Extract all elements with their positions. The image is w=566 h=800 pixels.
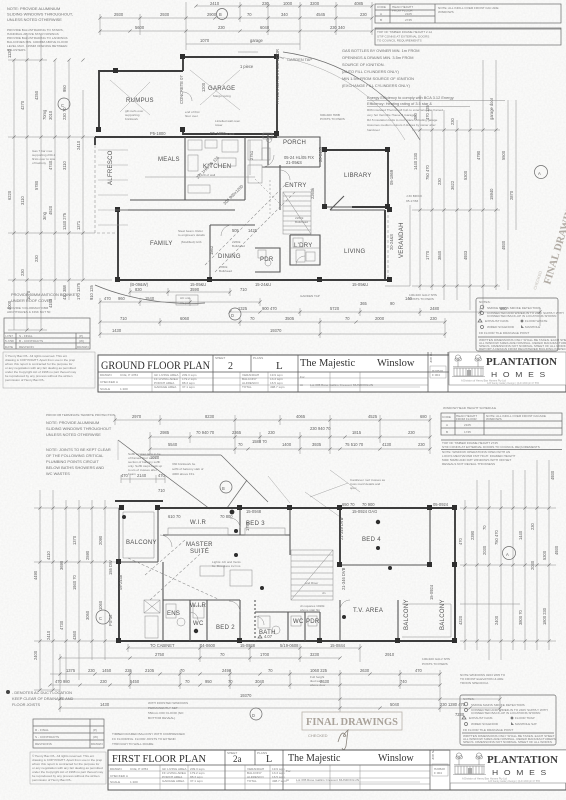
rumpus walls bbox=[99, 71, 183, 130]
svg-text:470: 470 bbox=[415, 668, 423, 673]
svg-text:4525: 4525 bbox=[368, 414, 378, 419]
svg-text:PS-16: PS-16 bbox=[108, 614, 113, 626]
svg-text:B: B bbox=[380, 18, 382, 22]
svg-text:710: 710 bbox=[120, 316, 128, 321]
svg-text:90: 90 bbox=[390, 301, 395, 306]
svg-text:3230: 3230 bbox=[310, 652, 320, 657]
garage walls bbox=[183, 57, 277, 134]
svg-text:PLUMBING POINTS CIRCUIT: PLUMBING POINTS CIRCUIT bbox=[46, 459, 99, 464]
svg-text:GARAGE AREA: GARAGE AREA bbox=[162, 779, 185, 783]
svg-text:230: 230 bbox=[268, 430, 276, 435]
svg-text:1060: 1060 bbox=[98, 600, 103, 610]
svg-text:4360: 4360 bbox=[72, 630, 77, 640]
FF MIDNOTES bbox=[172, 462, 386, 497]
CIRCLE B FF bbox=[220, 481, 232, 493]
svg-text:FD FLOOR TILE DRAINAGE POINT: FD FLOOR TILE DRAINAGE POINT bbox=[463, 728, 513, 732]
svg-text:4730: 4730 bbox=[59, 620, 64, 630]
svg-text:MEALS: MEALS bbox=[158, 157, 180, 163]
bottom wall bbox=[119, 640, 455, 642]
svg-text:FD FLOOR TILE DRAINAGE POINT: FD FLOOR TILE DRAINAGE POINT bbox=[479, 331, 529, 335]
svg-text:BALCONY: BALCONY bbox=[440, 599, 446, 630]
svg-text:floor over: floor over bbox=[185, 114, 198, 118]
BOTTOM DIMS GF bbox=[100, 287, 540, 338]
svg-text:Margo Living: Margo Living bbox=[213, 94, 231, 98]
svg-text:BALCONY: BALCONY bbox=[126, 540, 157, 546]
pdr box bbox=[255, 248, 280, 272]
dim ticks ff top bbox=[113, 418, 116, 421]
svg-text:4490: 4490 bbox=[33, 570, 38, 580]
svg-text:3690: 3690 bbox=[59, 560, 64, 570]
svg-text:CCE, P 4784: CCE, P 4784 bbox=[120, 373, 138, 377]
svg-text:15-0924 OAG: 15-0924 OAG bbox=[352, 509, 377, 514]
svg-text:70: 70 bbox=[482, 525, 487, 530]
svg-text:2000: 2000 bbox=[375, 316, 385, 321]
svg-text:04-0600: 04-0600 bbox=[200, 643, 216, 648]
svg-text:2140: 2140 bbox=[137, 473, 147, 478]
svg-text:365: 365 bbox=[360, 301, 368, 306]
svg-text:2970: 2970 bbox=[132, 414, 142, 419]
svg-text:FINAL DRAWINGS: FINAL DRAWINGS bbox=[306, 717, 398, 728]
svg-text:2030: 2030 bbox=[530, 560, 535, 570]
svg-text:5040: 5040 bbox=[390, 702, 400, 707]
svg-text:3040: 3040 bbox=[255, 679, 265, 684]
LEFT DIMS GF bbox=[7, 35, 112, 330]
svg-text:1700: 1700 bbox=[260, 652, 270, 657]
svg-text:MANHOLE SAT: MANHOLE SAT bbox=[515, 722, 537, 726]
svg-text:DINING: DINING bbox=[218, 254, 241, 260]
svg-text:70: 70 bbox=[185, 679, 190, 684]
svg-text:AC unit: AC unit bbox=[180, 296, 190, 300]
NOTES BOX FF bbox=[460, 695, 556, 745]
svg-text:1425: 1425 bbox=[248, 228, 258, 233]
STAMP bbox=[302, 712, 402, 750]
svg-text:4545: 4545 bbox=[316, 12, 326, 17]
svg-text:4110: 4110 bbox=[46, 550, 51, 560]
svg-text:4933: 4933 bbox=[463, 250, 468, 260]
svg-text:1070: 1070 bbox=[150, 455, 160, 460]
svg-text:SHEET: SHEET bbox=[215, 356, 225, 360]
svg-text:15-09&U: 15-09&U bbox=[190, 282, 206, 287]
svg-text:15-0844: 15-0844 bbox=[330, 643, 346, 648]
svg-text:(W): (W) bbox=[93, 735, 98, 739]
CIRCLE D GF bbox=[229, 308, 241, 320]
FF TOPDIMS bbox=[115, 414, 430, 460]
svg-text:70: 70 bbox=[220, 652, 225, 657]
balcony right strip bbox=[397, 600, 399, 641]
svg-text:2410: 2410 bbox=[46, 630, 51, 640]
svg-text:1370: 1370 bbox=[72, 535, 77, 545]
svg-text:brickwork: brickwork bbox=[125, 117, 139, 121]
svg-text:05-0924: 05-0924 bbox=[433, 502, 449, 507]
svg-text:1371: 1371 bbox=[76, 220, 81, 230]
svg-text:2400: 2400 bbox=[494, 615, 499, 625]
FF RIGHT DIMS bbox=[458, 460, 559, 660]
svg-text:NOTES:: NOTES: bbox=[479, 300, 491, 304]
svg-text:4930: 4930 bbox=[554, 545, 559, 555]
svg-text:5/19-0608: 5/19-0608 bbox=[280, 643, 299, 648]
garage diagonal braces bbox=[190, 70, 240, 110]
svg-text:1800 230: 1800 230 bbox=[542, 607, 547, 625]
meals kitchen bottom bbox=[130, 199, 245, 201]
svg-text:very hot Vermilite House & Gar: very hot Vermilite House & Garage) bbox=[367, 113, 416, 117]
svg-text:3622: 3622 bbox=[450, 180, 455, 190]
ens / wir lower / wc bbox=[163, 599, 240, 601]
svg-text:POSTS TO PERS: POSTS TO PERS bbox=[320, 117, 345, 121]
svg-text:6040: 6040 bbox=[260, 25, 270, 30]
svg-text:230: 230 bbox=[430, 316, 438, 321]
verandah strip bbox=[385, 205, 410, 286]
svg-text:1440 230: 1440 230 bbox=[413, 152, 418, 170]
GF WALL TEXT FRAGMENTS bbox=[130, 49, 394, 287]
svg-text:95-17/83: 95-17/83 bbox=[406, 199, 418, 203]
ladder ticks gf left bbox=[12, 58, 15, 61]
KITCHEN FIXTURES bbox=[188, 140, 315, 266]
svg-text:2090: 2090 bbox=[98, 535, 103, 545]
svg-text:Winslow: Winslow bbox=[377, 358, 415, 369]
svg-text:FLOOR JOISTS: FLOOR JOISTS bbox=[12, 702, 41, 707]
svg-text:610 70: 610 70 bbox=[168, 514, 181, 519]
svg-text:NOTE: JOINTS TO BE KEPT CLEAR: NOTE: JOINTS TO BE KEPT CLEAR bbox=[46, 447, 111, 452]
svg-text:2a: 2a bbox=[233, 754, 242, 764]
svg-text:W.I.R: W.I.R bbox=[190, 520, 207, 526]
svg-text:19370: 19370 bbox=[240, 693, 252, 698]
svg-text:05-2448: 05-2448 bbox=[118, 574, 123, 590]
svg-text:WIRED SOLENOID: WIRED SOLENOID bbox=[471, 722, 499, 726]
svg-text:At: At bbox=[286, 778, 289, 782]
LOGO2 bbox=[450, 750, 566, 783]
svg-text:garage: garage bbox=[250, 38, 263, 43]
svg-text:2745: 2745 bbox=[405, 18, 412, 22]
svg-text:EXHAUST FANS: EXHAUST FANS bbox=[469, 716, 493, 720]
dim ticks ff bottom bbox=[126, 646, 129, 649]
CIRCLE A FF bbox=[503, 547, 516, 560]
svg-text:710: 710 bbox=[240, 287, 248, 292]
FF WALL TEXT FRAGMENTS bbox=[118, 517, 434, 648]
diagonal raking lines hall bbox=[205, 185, 285, 265]
svg-text:4320: 4320 bbox=[458, 615, 463, 625]
FF PLAN WALLS bbox=[115, 501, 455, 641]
svg-text:POSTS TO PIERS: POSTS TO PIERS bbox=[422, 662, 448, 666]
svg-text:230 1280 470: 230 1280 470 bbox=[440, 702, 466, 707]
svg-text:3800 70: 3800 70 bbox=[518, 609, 523, 625]
svg-text:960: 960 bbox=[118, 296, 126, 301]
svg-text:KEEP CLEAR OF DRAINAGE AND: KEEP CLEAR OF DRAINAGE AND bbox=[12, 696, 74, 701]
svg-text:dn: dn bbox=[322, 591, 326, 595]
svg-text:FLOOR TRAP: FLOOR TRAP bbox=[515, 716, 535, 720]
BL TABLE GF bbox=[4, 318, 90, 349]
svg-text:Lot 335 Rose Gallins Crescent: Lot 335 Rose Gallins Crescent MUNDOOLUN bbox=[296, 778, 359, 782]
svg-text:WINDOW HEAD HEIGHT SCHEDULE: WINDOW HEAD HEIGHT SCHEDULE bbox=[443, 406, 496, 410]
svg-text:LIBRARY: LIBRARY bbox=[344, 173, 372, 179]
svg-text:3505: 3505 bbox=[285, 316, 295, 321]
svg-text:3935: 3935 bbox=[312, 442, 322, 447]
svg-text:STIF CONNS AT EXTERNAL DOORS T: STIF CONNS AT EXTERNAL DOORS TO COUNCIL … bbox=[442, 445, 540, 449]
svg-text:OF THE FOLLOWING CRITICAL: OF THE FOLLOWING CRITICAL bbox=[46, 453, 104, 458]
svg-text:1340 275: 1340 275 bbox=[62, 212, 67, 230]
sub rows gf bbox=[98, 377, 428, 379]
stairs bbox=[283, 192, 311, 234]
svg-text:B - CONTRACTS: B - CONTRACTS bbox=[19, 339, 43, 343]
svg-text:75 510 70: 75 510 70 bbox=[345, 442, 364, 447]
WATERMARK GF bbox=[532, 194, 566, 290]
svg-text:750 470: 750 470 bbox=[425, 164, 430, 180]
svg-text:UNLESS NOTED OTHERWISE: UNLESS NOTED OTHERWISE bbox=[46, 432, 101, 437]
svg-text:DRAWN: DRAWN bbox=[91, 742, 103, 746]
svg-text:70 900: 70 900 bbox=[362, 502, 375, 507]
svg-text:FC FLOORING. FLOOR JOISTS TO E: FC FLOORING. FLOOR JOISTS TO EXTEND bbox=[112, 737, 176, 741]
svg-text:garage door: garage door bbox=[489, 97, 494, 120]
svg-text:710: 710 bbox=[158, 488, 166, 493]
svg-text:above door: above door bbox=[310, 683, 325, 687]
svg-text:70: 70 bbox=[228, 679, 233, 684]
svg-text:1815: 1815 bbox=[352, 430, 362, 435]
dining divider bbox=[209, 225, 211, 280]
bed3 walls bbox=[239, 508, 241, 535]
right wall bbox=[454, 508, 456, 641]
svg-text:5300: 5300 bbox=[542, 550, 547, 560]
bed4 walls bbox=[339, 508, 341, 565]
ladder ticks ff right bbox=[463, 506, 466, 509]
svg-text:BALCONY: BALCONY bbox=[404, 599, 410, 630]
svg-text:1940 70: 1940 70 bbox=[72, 574, 77, 590]
svg-text:CONNECTED BACK-UP IN LOCATIONS: CONNECTED BACK-UP IN LOCATIONS SHOWN bbox=[471, 711, 540, 715]
LEFT MID NOTE bbox=[32, 149, 55, 165]
svg-text:2: 2 bbox=[228, 361, 233, 372]
FF WALL MARKS bbox=[116, 505, 457, 643]
svg-text:21-349 DVB: 21-349 DVB bbox=[339, 517, 344, 540]
svg-text:470: 470 bbox=[121, 473, 129, 478]
porch top wall bbox=[277, 137, 320, 167]
svg-text:SOURCE OF IGNITION.: SOURCE OF IGNITION. bbox=[342, 62, 385, 67]
svg-text:S - CONTRACTS: S - CONTRACTS bbox=[35, 735, 59, 739]
left wall bbox=[118, 562, 120, 641]
svg-text:230: 230 bbox=[20, 268, 25, 276]
svg-text:750 470: 750 470 bbox=[494, 529, 499, 545]
svg-text:1070: 1070 bbox=[200, 38, 210, 43]
svg-text:2390: 2390 bbox=[470, 530, 475, 540]
svg-text:230: 230 bbox=[34, 254, 39, 262]
svg-text:2750: 2750 bbox=[155, 652, 165, 657]
svg-text:1200: 1200 bbox=[201, 82, 206, 92]
svg-text:BED 4: BED 4 bbox=[362, 537, 381, 543]
svg-text:5450: 5450 bbox=[130, 679, 140, 684]
svg-text:2480: 2480 bbox=[430, 306, 440, 311]
svg-text:470: 470 bbox=[158, 473, 166, 478]
svg-text:permission of Henry Bax P/L.: permission of Henry Bax P/L. bbox=[5, 378, 45, 382]
svg-text:4250: 4250 bbox=[34, 90, 39, 100]
svg-text:70: 70 bbox=[238, 442, 243, 447]
svg-text:4930: 4930 bbox=[501, 240, 506, 250]
svg-text:15-0948: 15-0948 bbox=[246, 509, 262, 514]
svg-text:230: 230 bbox=[88, 668, 96, 673]
GROUND PLAN WALLS bbox=[95, 52, 420, 303]
svg-text:I-7/97: I-7/97 bbox=[5, 334, 13, 338]
TITLEBLOCK GF bbox=[98, 352, 566, 392]
svg-text:15940: 15940 bbox=[489, 188, 494, 200]
stairs ff bbox=[291, 550, 333, 600]
svg-text:DRAWN: DRAWN bbox=[110, 767, 122, 771]
svg-text:230: 230 bbox=[218, 25, 226, 30]
svg-text:MASTER: MASTER bbox=[186, 542, 213, 548]
svg-text:BED 2: BED 2 bbox=[216, 625, 235, 631]
svg-text:PROVIDE 50MM ANTICON BLANKET: PROVIDE 50MM ANTICON BLANKET bbox=[11, 292, 78, 297]
svg-text:4790: 4790 bbox=[476, 150, 481, 160]
svg-text:740: 740 bbox=[400, 679, 408, 684]
svg-text:230: 230 bbox=[437, 177, 442, 185]
svg-text:19370: 19370 bbox=[270, 328, 282, 333]
svg-text:1745: 1745 bbox=[464, 430, 471, 434]
svg-text:6220: 6220 bbox=[7, 190, 12, 200]
svg-text:(AUTO FILL CYLINDERS ONLY): (AUTO FILL CYLINDERS ONLY) bbox=[342, 69, 399, 74]
svg-text:WINDOWS: WINDOWS bbox=[486, 417, 502, 421]
ens shower X bbox=[144, 600, 160, 613]
svg-text:470 125: 470 125 bbox=[425, 104, 430, 120]
svg-text:RUMPUS: RUMPUS bbox=[126, 98, 154, 104]
svg-text:470 980: 470 980 bbox=[55, 679, 71, 684]
svg-text:Winslow: Winslow bbox=[378, 753, 414, 764]
gf door arcs and fixtures bbox=[280, 170, 290, 180]
ROOM LABELS GF bbox=[108, 86, 405, 273]
FROSTED NOTE bbox=[148, 701, 188, 720]
bath wc pdr bbox=[255, 611, 320, 613]
bottom wall bbox=[118, 279, 390, 281]
svg-text:2985: 2985 bbox=[160, 430, 170, 435]
svg-text:230: 230 bbox=[450, 117, 455, 125]
svg-text:4065: 4065 bbox=[296, 414, 306, 419]
svg-text:330 brickwork be: 330 brickwork be bbox=[172, 462, 196, 466]
BL COPYRIGHT GF bbox=[3, 352, 95, 388]
svg-text:1:100: 1:100 bbox=[120, 387, 128, 391]
svg-text:650 70: 650 70 bbox=[342, 502, 355, 507]
svg-text:DRAWN: DRAWN bbox=[77, 345, 89, 349]
svg-text:GROUND FLOOR PLAN: GROUND FLOOR PLAN bbox=[101, 358, 210, 372]
svg-text:340: 340 bbox=[281, 12, 289, 17]
svg-text:CHECKED A: CHECKED A bbox=[110, 774, 129, 778]
svg-text:ENS: ENS bbox=[167, 611, 180, 617]
family left wall bbox=[117, 210, 119, 280]
svg-text:230: 230 bbox=[418, 442, 426, 447]
TOPNOTES bbox=[7, 6, 73, 52]
SCHEDULE2 bbox=[441, 406, 562, 466]
svg-text:2400: 2400 bbox=[33, 650, 38, 660]
svg-text:1440: 1440 bbox=[518, 530, 523, 540]
svg-text:505: 505 bbox=[232, 228, 240, 233]
svg-text:soffit of balcony slab of: soffit of balcony slab of bbox=[172, 467, 204, 471]
svg-text:FAMILY: FAMILY bbox=[150, 241, 173, 247]
svg-text:JOB No: JOB No bbox=[431, 749, 435, 760]
svg-text:CODE: CODE bbox=[377, 5, 386, 9]
svg-text:1750: 1750 bbox=[245, 521, 250, 531]
svg-text:JOB No: JOB No bbox=[429, 352, 433, 363]
svg-text:For: For bbox=[286, 769, 291, 773]
alfresco paving bbox=[98, 149, 128, 151]
svg-text:TOTAL: TOTAL bbox=[242, 385, 252, 389]
wall band below rumpus bbox=[95, 136, 277, 138]
svg-text:4270: 4270 bbox=[20, 100, 25, 110]
svg-text:5300: 5300 bbox=[463, 170, 468, 180]
svg-text:21-346 DVB: 21-346 DVB bbox=[341, 567, 346, 590]
svg-text:1580 70: 1580 70 bbox=[252, 439, 268, 444]
ENERGYNOTE bbox=[367, 95, 505, 132]
svg-text:REVISIONS: REVISIONS bbox=[35, 742, 52, 746]
svg-text:At: At bbox=[300, 383, 303, 387]
wir bottom / master top bbox=[157, 508, 159, 562]
svg-text:230: 230 bbox=[360, 12, 368, 17]
svg-text:NOTES:: NOTES: bbox=[463, 697, 475, 701]
svg-text:Assumes medium colours if drap: Assumes medium colours if drapes by owne… bbox=[367, 123, 436, 127]
SCHEDULE1 bbox=[375, 4, 561, 43]
svg-text:WIRED SOLENOID: WIRED SOLENOID bbox=[487, 325, 515, 329]
svg-text:Efficiency: Heating rating of: Efficiency: Heating rating of 3.5 star & bbox=[367, 101, 432, 106]
FF EXTRA DIMS bbox=[121, 473, 449, 519]
svg-text:F 004: F 004 bbox=[434, 771, 442, 775]
svg-text:4930: 4930 bbox=[550, 470, 555, 480]
top wall bbox=[158, 507, 455, 509]
svg-text:D: D bbox=[231, 313, 234, 318]
svg-text:CHECKED A: CHECKED A bbox=[100, 380, 119, 384]
svg-text:1540: 1540 bbox=[145, 296, 155, 301]
svg-text:3010: 3010 bbox=[48, 110, 53, 120]
svg-text:2410: 2410 bbox=[210, 1, 220, 6]
TIMBER NOTE bbox=[112, 732, 186, 746]
svg-text:470: 470 bbox=[104, 296, 112, 301]
svg-text:SUITE: SUITE bbox=[190, 549, 209, 555]
svg-text:(P): (P) bbox=[93, 728, 97, 732]
svg-text:WINDOWS: WINDOWS bbox=[438, 10, 454, 14]
svg-text:(W): (W) bbox=[79, 339, 84, 343]
balcony left bbox=[119, 508, 158, 562]
svg-text:15-09&U: 15-09&U bbox=[352, 282, 368, 287]
svg-text:5720: 5720 bbox=[330, 306, 340, 311]
ff door arcs bbox=[229, 601, 240, 612]
svg-text:140: 140 bbox=[405, 296, 413, 301]
svg-text:L: L bbox=[276, 360, 283, 372]
svg-text:4085: 4085 bbox=[354, 1, 364, 6]
svg-text:WC WASTES: WC WASTES bbox=[46, 471, 70, 476]
svg-text:of balcony: of balcony bbox=[32, 161, 47, 165]
svg-text:ENTRY: ENTRY bbox=[285, 183, 307, 189]
bed2 bbox=[239, 600, 241, 641]
svg-text:SMOKE MAINS SMOKE DETECTORS: SMOKE MAINS SMOKE DETECTORS bbox=[487, 306, 541, 310]
svg-text:CONNECTED BACK-UP IN LOCATIONS: CONNECTED BACK-UP IN LOCATIONS SHOWN bbox=[487, 314, 556, 318]
svg-text:1562: 1562 bbox=[209, 245, 214, 255]
svg-text:WITH FROSTED WINDOWS: WITH FROSTED WINDOWS bbox=[148, 701, 188, 705]
svg-text:L: L bbox=[266, 754, 272, 765]
svg-text:P5-1800: P5-1800 bbox=[150, 131, 166, 136]
svg-text:GARDEN TAP: GARDEN TAP bbox=[300, 294, 320, 298]
svg-text:230 940 70: 230 940 70 bbox=[310, 426, 331, 431]
RIGHT DIMS GF bbox=[409, 60, 500, 310]
svg-text:lts. fibreglass incl ins: lts. fibreglass incl ins bbox=[212, 564, 241, 568]
svg-text:F 004: F 004 bbox=[432, 373, 440, 377]
svg-text:2105: 2105 bbox=[464, 423, 471, 427]
svg-text:3590: 3590 bbox=[190, 287, 200, 292]
svg-text:tower: tower bbox=[215, 123, 223, 127]
svg-text:1 piece: 1 piece bbox=[240, 64, 254, 69]
svg-text:TOP OF TIMBER FRAME HEIGHT 2.1: TOP OF TIMBER FRAME HEIGHT 2.1d bbox=[377, 30, 432, 34]
svg-text:15-0924: 15-0924 bbox=[429, 584, 434, 600]
svg-text:SLIDING WINDOWS THROUGHOUT,: SLIDING WINDOWS THROUGHOUT, bbox=[7, 12, 73, 17]
svg-text:TIMBER FRAMED BALCONY WITH COM: TIMBER FRAMED BALCONY WITH COMPRESSED bbox=[112, 732, 186, 736]
svg-text:550mm OFF FLOOR (NO: 550mm OFF FLOOR (NO bbox=[148, 711, 184, 715]
svg-text:3110: 3110 bbox=[20, 195, 25, 205]
svg-text:5540: 5540 bbox=[168, 442, 178, 447]
FF BOTTOM DIMS bbox=[50, 644, 506, 717]
FF ROOF bbox=[118, 440, 360, 519]
svg-text:MANHOLE: MANHOLE bbox=[525, 325, 540, 329]
svg-text:498.7 sqm: 498.7 sqm bbox=[272, 779, 287, 783]
svg-text:280: 280 bbox=[413, 112, 418, 120]
